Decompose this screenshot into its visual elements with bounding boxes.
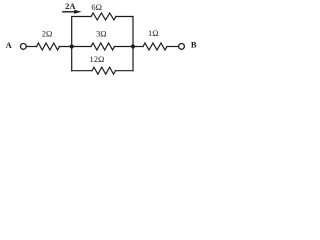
svg-text:1Ω: 1Ω xyxy=(148,28,159,38)
wire top-right horizontal xyxy=(116,16,133,18)
svg-text:A: A xyxy=(6,40,13,50)
node right junction dot xyxy=(131,44,135,48)
wire R2-to-nodeL xyxy=(60,46,92,48)
wire top-left horizontal xyxy=(72,16,91,18)
terminal circle A xyxy=(20,44,26,50)
wire A-to-R2 xyxy=(27,46,37,48)
resistor 1ohm xyxy=(143,43,167,50)
wire vertical nodeR-up xyxy=(132,17,134,47)
svg-text:B: B xyxy=(191,40,197,50)
current arrow 2A xyxy=(63,11,76,13)
resistor 3ohm xyxy=(91,43,115,50)
terminal circle B xyxy=(179,44,185,50)
wire 3ohm-to-nodeR xyxy=(115,46,134,48)
wire bottom-right horizontal xyxy=(116,70,134,72)
wire R1-to-B xyxy=(167,46,178,48)
resistor 6ohm xyxy=(91,13,116,20)
resistor 2ohm xyxy=(37,43,60,50)
wire bottom-left horizontal xyxy=(72,70,92,72)
svg-text:6Ω: 6Ω xyxy=(91,2,102,12)
svg-text:3Ω: 3Ω xyxy=(96,29,107,39)
svg-text:12Ω: 12Ω xyxy=(89,54,104,64)
svg-text:2Ω: 2Ω xyxy=(42,29,53,39)
wire vertical nodeL-up xyxy=(71,17,73,47)
svg-text:2A: 2A xyxy=(65,1,76,11)
wire vertical nodeR-down xyxy=(132,47,134,71)
node left junction dot xyxy=(70,44,74,48)
wire vertical nodeL-down xyxy=(71,47,73,71)
wire nodeR-to-R1 xyxy=(133,46,143,48)
resistor 12ohm xyxy=(92,67,116,74)
